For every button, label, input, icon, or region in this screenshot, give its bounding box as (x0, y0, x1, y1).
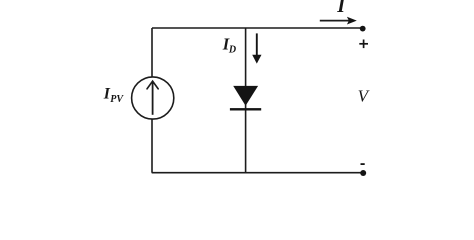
svg-text:I: I (336, 0, 346, 17)
svg-text:D: D (228, 44, 236, 55)
svg-text:V: V (358, 86, 371, 105)
svg-text:PV: PV (110, 94, 124, 105)
